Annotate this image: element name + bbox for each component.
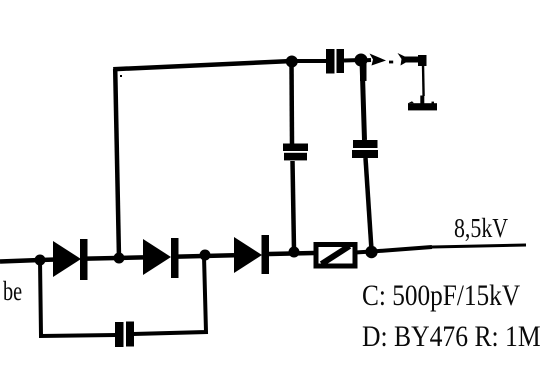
wire: corner down to ground electrode: [422, 64, 425, 96]
node A (junction dot left): [35, 255, 46, 266]
wire: bottom loop (node A down, across, up to node C): [40, 260, 116, 336]
node D (junction under left capacitor branch): [289, 247, 300, 258]
wire: node G down to capacitor C3: [362, 60, 365, 140]
capacitor C1 (left shunt): [283, 144, 308, 161]
wire: D1 to D2: [87, 257, 143, 258]
arrow 2 (second arrowhead with corner): [398, 53, 427, 66]
wire: resistor R to output right: [355, 247, 432, 253]
diode D1: [53, 239, 88, 280]
wire: D2 to D3: [178, 255, 234, 256]
wire: node F to capacitor C2: [292, 59, 326, 63]
wire: left vertical riser from node B to top-left corner: [115, 69, 119, 258]
wire: node A to diode D1: [40, 257, 56, 262]
wire: capacitor C3 down to node E: [366, 158, 372, 250]
capacitor C3 (right shunt): [352, 140, 378, 158]
capacitor C2 (top, series): [326, 49, 344, 74]
wire: top horizontal to node F: [113, 61, 292, 69]
wire: node F down to capacitor C1: [289, 61, 294, 144]
node B (junction with left vertical riser): [114, 253, 125, 264]
node E (junction under right capacitor branch): [365, 246, 377, 258]
label: D and R values: [362, 320, 541, 354]
node C (junction with bottom loop right side): [200, 250, 211, 261]
node G (top junction, right): [355, 54, 368, 67]
label: be: [3, 276, 22, 307]
dash (spark gap): [389, 61, 393, 64]
ground electrode plate: [408, 96, 437, 111]
node F (top junction, left): [286, 56, 298, 68]
wire: D3 to resistor R: [269, 253, 314, 254]
diode D3: [234, 235, 269, 274]
resistor R (box with diagonal): [316, 245, 355, 267]
wire: capacitor C1 down to node D: [293, 161, 295, 250]
wire: input wire left to node A: [0, 260, 40, 262]
capacitor C4 (bottom loop, series): [115, 322, 134, 348]
diode D2: [143, 238, 179, 278]
wire: capacitor C2 to node G: [344, 58, 361, 63]
label: C value: [362, 279, 520, 313]
arrow 1 (output arrow from node G): [361, 54, 386, 66]
label: 8,5kV: [454, 213, 508, 244]
